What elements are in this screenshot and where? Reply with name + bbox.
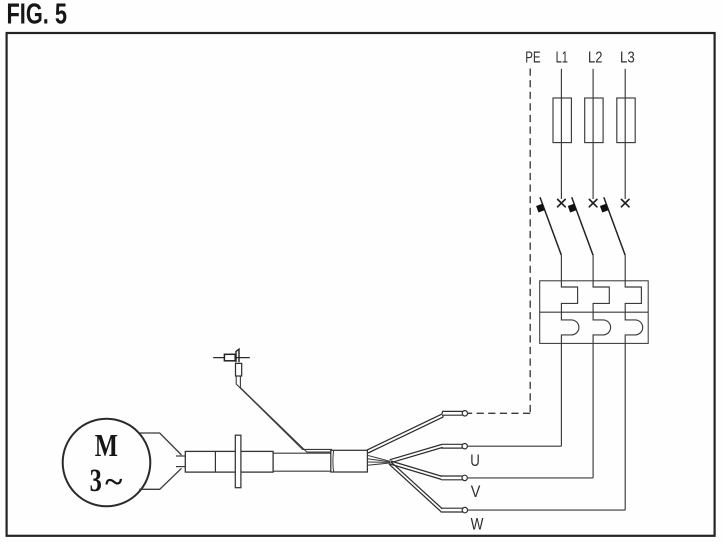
switch Q1 pole 3 linkage square xyxy=(600,204,609,213)
core wires fan xyxy=(367,455,390,461)
wire switch pole 3 to overload relay xyxy=(624,255,626,280)
wire U terminal lead (double line) xyxy=(390,447,442,462)
switch Q1 pole 1 blade xyxy=(540,197,561,255)
terminal ring V terminal xyxy=(462,475,467,480)
earth wire from clamp (double line) xyxy=(236,376,332,449)
wire W vertical from relay xyxy=(624,343,626,510)
crimp lug PE terminal xyxy=(443,415,463,417)
switch Q1 pole 1 linkage square xyxy=(536,204,545,213)
switch Q1 pole 2 linkage square xyxy=(568,204,577,213)
overload relay heater element 2 xyxy=(593,281,609,312)
svg-text:M: M xyxy=(95,427,118,463)
wire L3 drop to fuse xyxy=(624,69,626,98)
svg-text:~: ~ xyxy=(105,463,122,498)
svg-text:3: 3 xyxy=(90,463,102,499)
wire L3 fuse to switch contact xyxy=(624,143,626,199)
overload relay divider line xyxy=(540,311,649,313)
wire switch pole 1 to overload relay xyxy=(560,255,562,280)
terminal ring U terminal xyxy=(462,444,467,449)
splice sleeve rect xyxy=(331,450,368,472)
wire L1 drop to fuse xyxy=(560,69,562,98)
overload relay F4 outer box xyxy=(540,281,649,344)
wire V horizontal to lug xyxy=(468,477,593,479)
svg-text:W: W xyxy=(471,515,484,533)
wire W horizontal to lug xyxy=(468,509,625,511)
wire switch pole 2 to overload relay xyxy=(592,255,594,280)
switch Q1 pole 1 contact x-mark xyxy=(558,199,566,206)
switch Q1 pole 2 blade xyxy=(572,197,593,255)
terminal ring W terminal xyxy=(462,507,467,512)
splice sleeve wrap curve xyxy=(332,450,335,472)
overload relay heater element 3 xyxy=(625,281,641,312)
wire L2 fuse to switch contact xyxy=(592,143,594,199)
wire U horizontal to lug xyxy=(468,445,561,447)
fuse F2 (L2) xyxy=(585,98,603,143)
overload relay trip loop 2 xyxy=(593,312,611,343)
earth clamp screw axis line xyxy=(213,357,250,359)
wire U vertical from relay xyxy=(560,343,562,446)
crimp lug V terminal xyxy=(441,478,462,480)
mounting flange xyxy=(235,435,241,488)
motor M1 circle xyxy=(63,419,151,507)
fuse F1 (L1) xyxy=(553,98,571,143)
svg-text:V: V xyxy=(471,483,481,501)
crimp lug U terminal xyxy=(442,446,462,449)
cable gland body rect xyxy=(185,451,273,472)
earth clamp tab xyxy=(236,349,239,362)
crimp lug W terminal xyxy=(440,511,462,512)
wire L1 fuse to switch contact xyxy=(560,143,562,199)
switch Q1 pole 3 blade xyxy=(604,197,625,255)
wire PE terminal lead (double line) xyxy=(368,417,443,453)
svg-text:PE: PE xyxy=(525,50,540,67)
svg-text:L1: L1 xyxy=(556,50,568,67)
overload relay heater element 1 xyxy=(561,281,577,312)
switch Q1 pole 3 contact x-mark xyxy=(621,199,629,206)
wire PE dashed vertical xyxy=(529,69,531,414)
fuse F3 (L3) xyxy=(617,98,635,143)
wire V terminal lead (double line) xyxy=(390,464,442,480)
strain relief top line xyxy=(139,433,181,455)
wire V vertical from relay xyxy=(592,343,594,478)
wire W terminal lead (double line) xyxy=(389,464,440,511)
switch Q1 pole 2 contact x-mark xyxy=(589,199,597,206)
svg-text:L2: L2 xyxy=(588,50,602,67)
earth clamp screw body xyxy=(224,354,235,361)
strain relief neck xyxy=(176,455,186,457)
strain relief bottom line xyxy=(139,468,181,489)
svg-text:FIG. 5: FIG. 5 xyxy=(7,0,68,31)
cable bottom edge xyxy=(273,470,332,472)
overload relay trip loop 1 xyxy=(561,312,579,343)
svg-text:U: U xyxy=(470,452,480,470)
overload relay trip loop 3 xyxy=(625,312,643,343)
terminal ring PE terminal xyxy=(462,411,467,416)
wire PE dashed horizontal to lug xyxy=(468,412,530,414)
svg-text:L3: L3 xyxy=(620,50,635,67)
cable gland divider xyxy=(214,451,216,472)
cable top edge xyxy=(273,452,332,454)
earth clamp sleeve xyxy=(236,363,242,376)
wire L2 drop to fuse xyxy=(592,69,594,98)
